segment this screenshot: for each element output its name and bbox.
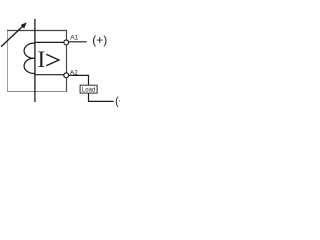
variability arrow <box>1 22 27 47</box>
terminal A1 <box>64 40 69 45</box>
CT winding arcs <box>24 43 35 73</box>
svg-text:Load: Load <box>82 87 95 93</box>
terminal A2 <box>64 73 69 78</box>
svg-text:A1: A1 <box>70 34 78 41</box>
load box <box>80 85 97 93</box>
svg-text:I: I <box>38 47 46 72</box>
relay device box bottom edge <box>7 91 67 93</box>
relay device box left edge <box>7 30 9 92</box>
relay device box right edge <box>66 30 68 92</box>
wire node to A2 <box>35 74 64 76</box>
svg-text:(+): (+) <box>92 33 107 47</box>
wire A1 to plus <box>69 41 87 43</box>
wire load to minus <box>89 93 114 101</box>
wire node to A1 <box>35 41 64 43</box>
svg-text:(−): (−) <box>115 95 120 107</box>
relay device box top edge <box>7 30 67 32</box>
primary conductor wire <box>34 19 36 102</box>
wire A2 to load <box>69 75 89 85</box>
